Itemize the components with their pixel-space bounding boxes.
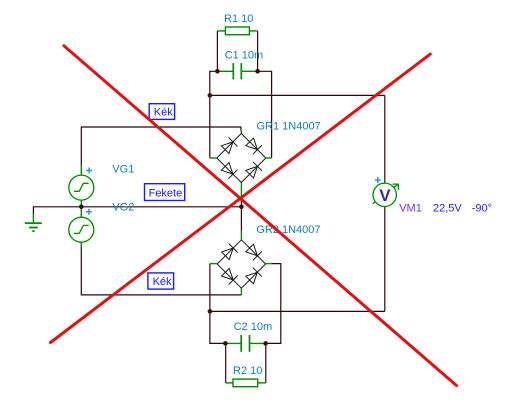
wire GR2 left vertex down to C2 left node: [210, 264, 226, 344]
red cross stroke 1: [64, 46, 457, 386]
svg-text:C2 10m: C2 10m: [234, 321, 273, 333]
resistor R2 leads: [226, 382, 266, 384]
lead VG2 top stub: [80, 207, 82, 217]
lead GR2 bottom stub: [240, 288, 242, 295]
wire C1 left jog down to GR1 left vertex: [210, 71, 218, 158]
wire right branch vertical: [384, 95, 386, 311]
wire C1 right jog down to GR1 right vertex: [258, 71, 272, 158]
svg-text:VM1: VM1: [399, 202, 422, 214]
junction node dot 7: [223, 341, 228, 346]
svg-text:R2 10: R2 10: [233, 365, 262, 377]
wire C2 right node down to R2: [265, 343, 267, 383]
lead GR1 right stub: [266, 157, 272, 159]
label GR1 1N4007: [257, 120, 321, 132]
svg-text:C1 10m: C1 10m: [225, 49, 264, 61]
label GR2 1N4007: [256, 224, 320, 236]
svg-text:R1 10: R1 10: [224, 13, 253, 25]
label C1 10m: [225, 49, 264, 61]
voltmeter arrow: [373, 184, 399, 204]
wire Fekete wire VG node to bridge junction: [81, 206, 241, 208]
node label Kek (bottom): [148, 273, 174, 289]
wire bottom rail to voltmeter branch: [210, 310, 385, 312]
svg-text:Fekete: Fekete: [149, 188, 183, 200]
resistor R2: [233, 379, 258, 387]
wire lower Kek wire VG2 bottom to GR2 bottom stub: [81, 246, 241, 295]
bridge rectifier GR2: [217, 240, 265, 288]
label VM1: [399, 202, 422, 214]
junction node dot 5: [239, 205, 244, 210]
svg-text:VG1: VG1: [112, 163, 134, 175]
lead VG2 bottom stub: [80, 242, 82, 246]
lead GR1 bottom stub: [240, 183, 242, 196]
red cross stroke 2: [51, 54, 431, 342]
lead GR2 left stub: [210, 263, 217, 265]
wire C2 left node down to R2: [225, 343, 227, 383]
node label Fekete: [145, 184, 185, 201]
svg-text:Kék: Kék: [153, 276, 172, 288]
lead VG1 top stub: [80, 166, 82, 175]
label R2 10: [233, 365, 262, 377]
plus sign of VM1: [375, 177, 381, 183]
svg-text:22,5V: 22,5V: [433, 202, 462, 214]
junction node dot 3: [208, 93, 213, 98]
svg-text:GR1 1N4007: GR1 1N4007: [257, 120, 321, 132]
voltage generator VG2: [69, 217, 94, 242]
wire junction to GR2 top vertex: [240, 207, 242, 231]
wire GR2 right vertex over and down to C2 right node: [266, 264, 281, 344]
wire R1 right vertical: [257, 31, 259, 71]
voltage generator VG1: [69, 175, 94, 200]
wire upper Kek wire from VG1 top corner to GR1 top stub: [81, 127, 241, 131]
junction node dot 8: [263, 341, 268, 346]
wire R1 left vertical: [216, 31, 218, 71]
wire ground feed: [33, 207, 81, 215]
voltmeter VM1 symbol: [373, 183, 396, 206]
resistor R1 leads: [217, 30, 257, 32]
lead GR2 right stub: [266, 263, 272, 265]
capacitor C1: [217, 63, 257, 79]
lead GR1 left stub: [210, 157, 217, 159]
lead VG1 bottom stub: [80, 200, 82, 207]
svg-text:V: V: [379, 186, 391, 205]
svg-text:-90°: -90°: [472, 202, 492, 214]
label VG2: [112, 202, 134, 214]
label C2 10m: [234, 321, 273, 333]
junction node dot 1: [215, 69, 220, 74]
lead GR1 top stub: [240, 131, 242, 134]
ground: [25, 215, 42, 231]
value -90&#176;: [472, 202, 492, 214]
svg-text:VG2: VG2: [112, 202, 134, 214]
plus sign of VG1: [86, 168, 92, 174]
plus sign of VG2: [86, 209, 92, 215]
capacitor C2: [225, 335, 265, 352]
junction node dot 6: [208, 309, 213, 314]
wire top rail to voltmeter branch: [210, 94, 385, 96]
svg-text:Kék: Kék: [154, 107, 173, 119]
label VG1: [112, 163, 134, 175]
resistor R1: [225, 27, 249, 35]
svg-text:GR2 1N4007: GR2 1N4007: [256, 224, 320, 236]
junction node dot 2: [255, 69, 260, 74]
bridge rectifier GR1: [217, 134, 266, 183]
value 22,5V: [433, 202, 462, 214]
label R1 10: [224, 13, 253, 25]
wire GR1 bottom vertex to junction: [240, 196, 242, 207]
junction node dot 4: [79, 205, 84, 210]
lead GR2 top stub: [240, 231, 242, 240]
node label Kek (top): [149, 104, 174, 120]
wire VG1 top feed: [80, 126, 82, 165]
